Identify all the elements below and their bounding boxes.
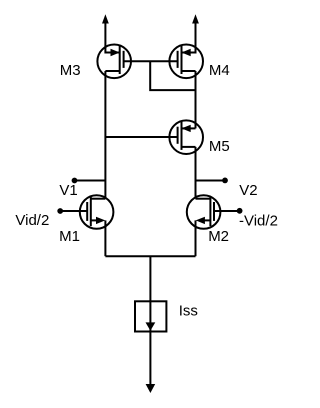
arrowhead M5 source (PMOS) (182, 125, 191, 132)
node V2 terminal dot (222, 178, 228, 184)
svg-text:M2: M2 (208, 228, 229, 245)
arrowhead M2 source (NMOS) (196, 217, 205, 224)
svg-text:M5: M5 (209, 138, 230, 155)
arrowhead M3 source (PMOS) (111, 49, 120, 56)
wire M2 gate (214, 210, 240, 212)
svg-text:M3: M3 (60, 62, 81, 79)
node -Vid/2 terminal dot (237, 208, 243, 214)
wire left rail (M3 drain to M1 drain) (104, 71, 106, 199)
svg-text:M1: M1 (59, 228, 80, 245)
arrowhead VDD right (192, 14, 199, 23)
wire M1 gate (60, 210, 87, 212)
transistor M3 (97, 45, 131, 79)
transistor M1 (80, 195, 114, 229)
svg-text:Iss: Iss (179, 302, 198, 319)
arrowhead tail bottom (146, 384, 156, 393)
wire M5 gate to left rail (105, 136, 177, 138)
wire gate M3-M4 (124, 60, 178, 62)
transistor M4 (169, 45, 203, 79)
current source Iss box (135, 301, 166, 331)
wire M2 source down (195, 220, 197, 256)
wire common source (105, 255, 195, 257)
svg-text:-Vid/2: -Vid/2 (239, 212, 278, 229)
transistor M5 (169, 120, 203, 154)
node V1 terminal dot (72, 178, 78, 184)
svg-text:M4: M4 (209, 62, 230, 79)
arrowhead VDD left (102, 14, 109, 23)
wire V1 tap (75, 180, 106, 182)
wire right rail (M4 drain to M5 source) (195, 71, 197, 128)
transistor M2 (187, 195, 221, 229)
wire V2 tap (196, 180, 226, 182)
svg-text:Vid/2: Vid/2 (15, 212, 49, 229)
arrowhead M4 source (PMOS) (182, 49, 191, 56)
wire M4 diode connection (150, 61, 195, 90)
wire right rail (M5 drain to M2 drain) (195, 147, 197, 199)
wire tail down (149, 256, 151, 389)
arrowhead inside Iss box (146, 322, 156, 330)
arrowhead M1 source (NMOS) (96, 217, 105, 224)
svg-text:V1: V1 (59, 182, 77, 199)
wire VDD lead M3 (105, 22, 119, 53)
svg-text:V2: V2 (239, 182, 257, 199)
wire VDD lead M4 (182, 22, 196, 53)
node Vid/2 terminal dot (57, 208, 63, 214)
wire M1 source down (104, 220, 106, 256)
